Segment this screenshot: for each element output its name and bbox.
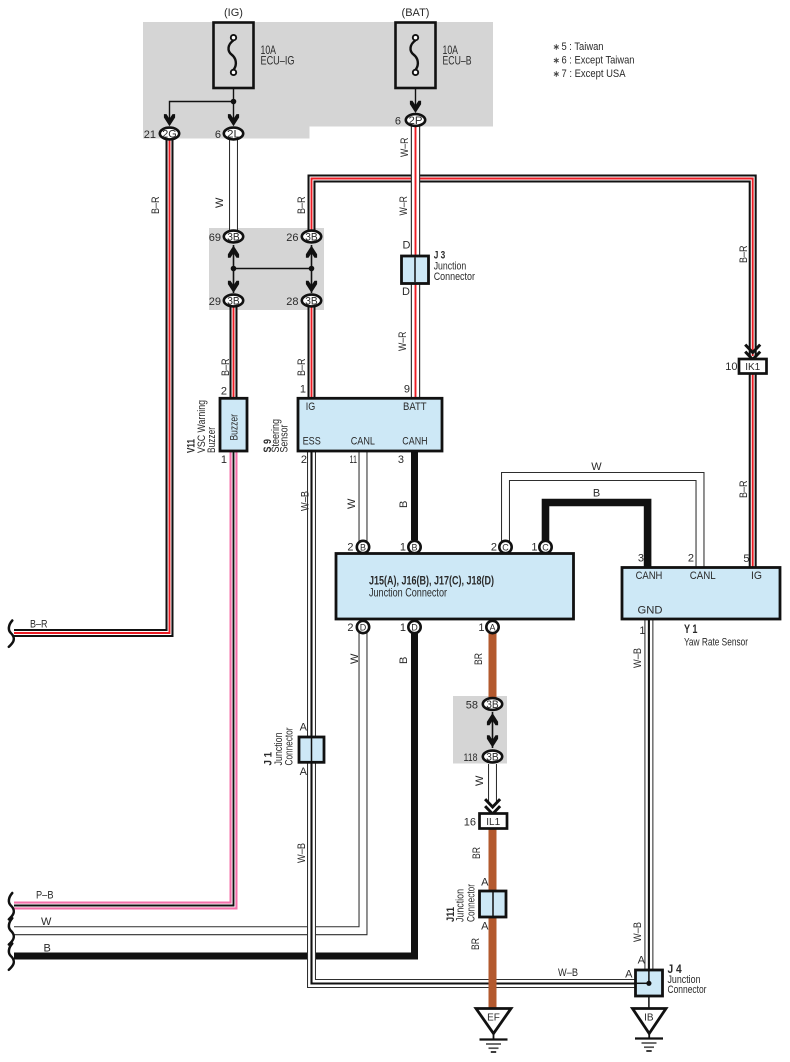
svg-text:B–R: B–R [220, 358, 232, 376]
svg-text:D: D [411, 622, 418, 632]
svg-text:W–B: W–B [632, 922, 644, 942]
svg-text:Junction Connector: Junction Connector [369, 586, 447, 600]
svg-text:W–B: W–B [296, 843, 308, 863]
svg-text:A: A [481, 877, 489, 889]
svg-text:Connector: Connector [466, 884, 478, 922]
svg-text:3B: 3B [305, 232, 318, 244]
svg-text:B: B [44, 943, 51, 955]
svg-text:2L: 2L [227, 129, 240, 141]
svg-text:9: 9 [404, 384, 410, 396]
svg-text:W–R: W–R [397, 331, 409, 351]
svg-text:P–B: P–B [36, 890, 54, 902]
svg-text:3B: 3B [227, 296, 240, 308]
svg-text:3B: 3B [486, 699, 499, 711]
svg-text:3: 3 [398, 454, 404, 466]
svg-text:BATT: BATT [403, 401, 427, 413]
svg-text:1: 1 [478, 622, 484, 634]
svg-text:3: 3 [638, 553, 644, 565]
svg-text:Sensor: Sensor [278, 424, 290, 452]
svg-text:B: B [411, 542, 417, 552]
svg-text:CANH: CANH [636, 570, 663, 582]
svg-text:Connector: Connector [668, 984, 707, 996]
svg-text:2: 2 [347, 622, 353, 634]
svg-text:A: A [481, 921, 489, 933]
svg-text:Buzzer: Buzzer [206, 427, 218, 453]
svg-text:Yaw Rate Sensor: Yaw Rate Sensor [684, 637, 748, 649]
svg-text:IG: IG [306, 401, 316, 413]
svg-text:1: 1 [300, 384, 306, 396]
svg-text:6: 6 [215, 129, 221, 141]
svg-text:(BAT): (BAT) [402, 7, 430, 19]
svg-text:IL1: IL1 [486, 817, 500, 828]
svg-text:2: 2 [347, 542, 353, 554]
svg-text:W: W [591, 461, 602, 473]
svg-text:W–B: W–B [632, 648, 644, 668]
svg-text:B–R: B–R [150, 196, 162, 214]
svg-text:D: D [360, 622, 367, 632]
svg-text:B: B [593, 488, 600, 500]
svg-text:B–R: B–R [296, 358, 308, 376]
svg-text:7 : Except USA: 7 : Except USA [562, 68, 627, 80]
svg-text:BR: BR [473, 653, 485, 665]
svg-text:C: C [542, 542, 549, 552]
svg-text:2: 2 [688, 553, 694, 565]
svg-text:11: 11 [350, 454, 358, 466]
svg-text:W–R: W–R [399, 137, 411, 157]
svg-text:10: 10 [725, 361, 737, 373]
svg-text:3B: 3B [227, 232, 240, 244]
svg-text:Connector: Connector [284, 727, 296, 765]
svg-text:A: A [300, 766, 308, 778]
svg-text:ESS: ESS [303, 436, 321, 448]
svg-text:BR: BR [470, 938, 482, 950]
svg-text:B–R: B–R [738, 480, 750, 498]
svg-text:C: C [502, 542, 509, 552]
svg-text:W–B: W–B [558, 967, 578, 979]
svg-text:29: 29 [209, 296, 221, 308]
svg-text:CANH: CANH [402, 436, 427, 448]
svg-text:16: 16 [464, 817, 476, 829]
svg-text:W: W [214, 197, 226, 208]
svg-text:6 : Except Taiwan: 6 : Except Taiwan [562, 55, 635, 67]
svg-text:CANL: CANL [690, 570, 716, 582]
svg-text:1: 1 [400, 622, 406, 634]
svg-text:B: B [398, 657, 410, 664]
svg-text:W: W [349, 653, 361, 664]
svg-text:D: D [403, 240, 411, 252]
svg-text:B–R: B–R [30, 619, 48, 631]
svg-text:1: 1 [221, 454, 227, 466]
svg-text:3B: 3B [305, 296, 318, 308]
svg-text:BR: BR [471, 847, 483, 859]
svg-text:A: A [638, 955, 646, 967]
svg-text:2: 2 [221, 386, 227, 398]
svg-text:26: 26 [286, 232, 298, 244]
svg-text:W: W [474, 775, 486, 786]
svg-text:IK1: IK1 [745, 362, 760, 373]
svg-text:W–R: W–R [398, 196, 410, 216]
svg-text:2: 2 [491, 542, 497, 554]
svg-text:A: A [489, 622, 495, 632]
svg-text:(IG): (IG) [224, 7, 243, 19]
svg-text:D: D [402, 286, 410, 298]
svg-text:B–R: B–R [296, 196, 308, 214]
svg-text:1: 1 [400, 542, 406, 554]
svg-text:5 : Taiwan: 5 : Taiwan [562, 41, 604, 53]
svg-text:2: 2 [301, 454, 307, 466]
svg-text:GND: GND [638, 605, 663, 617]
svg-text:21: 21 [144, 129, 156, 141]
svg-text:2G: 2G [162, 129, 177, 141]
svg-text:CANL: CANL [351, 436, 375, 448]
svg-text:5: 5 [743, 553, 749, 565]
svg-text:Connector: Connector [434, 271, 476, 283]
svg-text:B: B [398, 501, 410, 508]
svg-text:58: 58 [466, 700, 478, 712]
svg-text:Y 1: Y 1 [684, 622, 698, 636]
svg-text:A: A [625, 969, 633, 981]
svg-text:118: 118 [464, 752, 478, 764]
svg-text:A: A [300, 722, 308, 734]
svg-text:W: W [346, 498, 358, 509]
svg-text:B–R: B–R [738, 245, 750, 263]
svg-text:W–B: W–B [300, 491, 312, 511]
svg-text:IB: IB [644, 1013, 654, 1024]
svg-text:28: 28 [286, 296, 298, 308]
svg-text:69: 69 [209, 232, 221, 244]
svg-text:IG: IG [751, 570, 762, 582]
svg-text:J 3: J 3 [434, 249, 446, 261]
svg-text:W: W [41, 916, 52, 928]
svg-text:ECU–B: ECU–B [443, 54, 472, 68]
svg-text:ECU–IG: ECU–IG [261, 54, 295, 68]
svg-text:Buzzer: Buzzer [229, 414, 241, 441]
svg-text:6: 6 [395, 116, 401, 128]
svg-text:1: 1 [639, 625, 645, 637]
svg-text:B: B [360, 542, 366, 552]
svg-text:3B: 3B [486, 752, 499, 764]
svg-text:1: 1 [531, 542, 537, 554]
svg-text:2P: 2P [409, 115, 423, 127]
svg-text:EF: EF [487, 1013, 500, 1024]
